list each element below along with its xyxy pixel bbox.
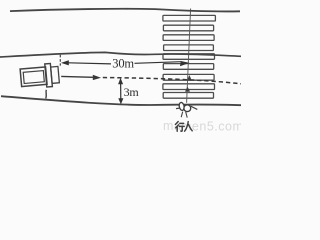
svg-text:30m: 30m [112,57,134,71]
svg-text:3m: 3m [124,85,140,99]
